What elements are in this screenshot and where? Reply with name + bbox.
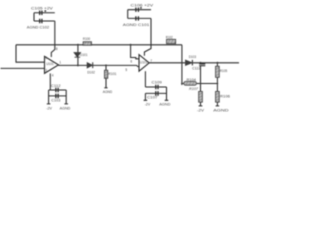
svg-text:R104: R104 — [187, 77, 197, 82]
svg-text:R102: R102 — [166, 35, 174, 40]
svg-text:7: 7 — [150, 59, 152, 63]
svg-text:D101: D101 — [80, 52, 88, 57]
svg-text:-2V: -2V — [197, 108, 204, 113]
svg-text:6: 6 — [130, 60, 132, 64]
svg-text:C112: C112 — [51, 83, 62, 88]
svg-text:-2V: -2V — [145, 101, 151, 106]
svg-text:C111: C111 — [192, 65, 201, 70]
svg-text:AGND: AGND — [103, 89, 112, 94]
svg-text:5: 5 — [125, 68, 127, 72]
svg-text:C103: C103 — [51, 97, 61, 102]
svg-text:D103: D103 — [189, 54, 197, 59]
svg-text:1: 1 — [59, 61, 61, 65]
svg-text:R106: R106 — [220, 94, 231, 99]
svg-text:AGND: AGND — [213, 108, 228, 113]
svg-text:AGND C102: AGND C102 — [27, 24, 50, 29]
svg-text:C107: C107 — [147, 94, 158, 99]
svg-text:C106 +2V: C106 +2V — [131, 2, 154, 7]
svg-text:4: 4 — [52, 74, 54, 78]
svg-text:R100: R100 — [83, 36, 91, 41]
svg-text:R105: R105 — [220, 68, 228, 73]
svg-text:2: 2 — [45, 56, 47, 60]
svg-text:U101: U101 — [46, 62, 54, 66]
svg-text:D102: D102 — [87, 69, 95, 74]
svg-text:C109: C109 — [152, 79, 163, 84]
svg-text:8: 8 — [56, 47, 58, 51]
svg-text:-2V: -2V — [46, 106, 52, 111]
svg-text:3: 3 — [45, 68, 47, 72]
svg-text:C105 +2V: C105 +2V — [31, 6, 53, 11]
svg-text:AGND: AGND — [159, 101, 170, 106]
svg-text:R107: R107 — [189, 86, 199, 91]
svg-text:AGND C101: AGND C101 — [123, 22, 150, 27]
svg-text:AGND: AGND — [60, 106, 71, 111]
svg-text:R101: R101 — [108, 71, 117, 76]
svg-text:U101: U101 — [140, 60, 148, 64]
